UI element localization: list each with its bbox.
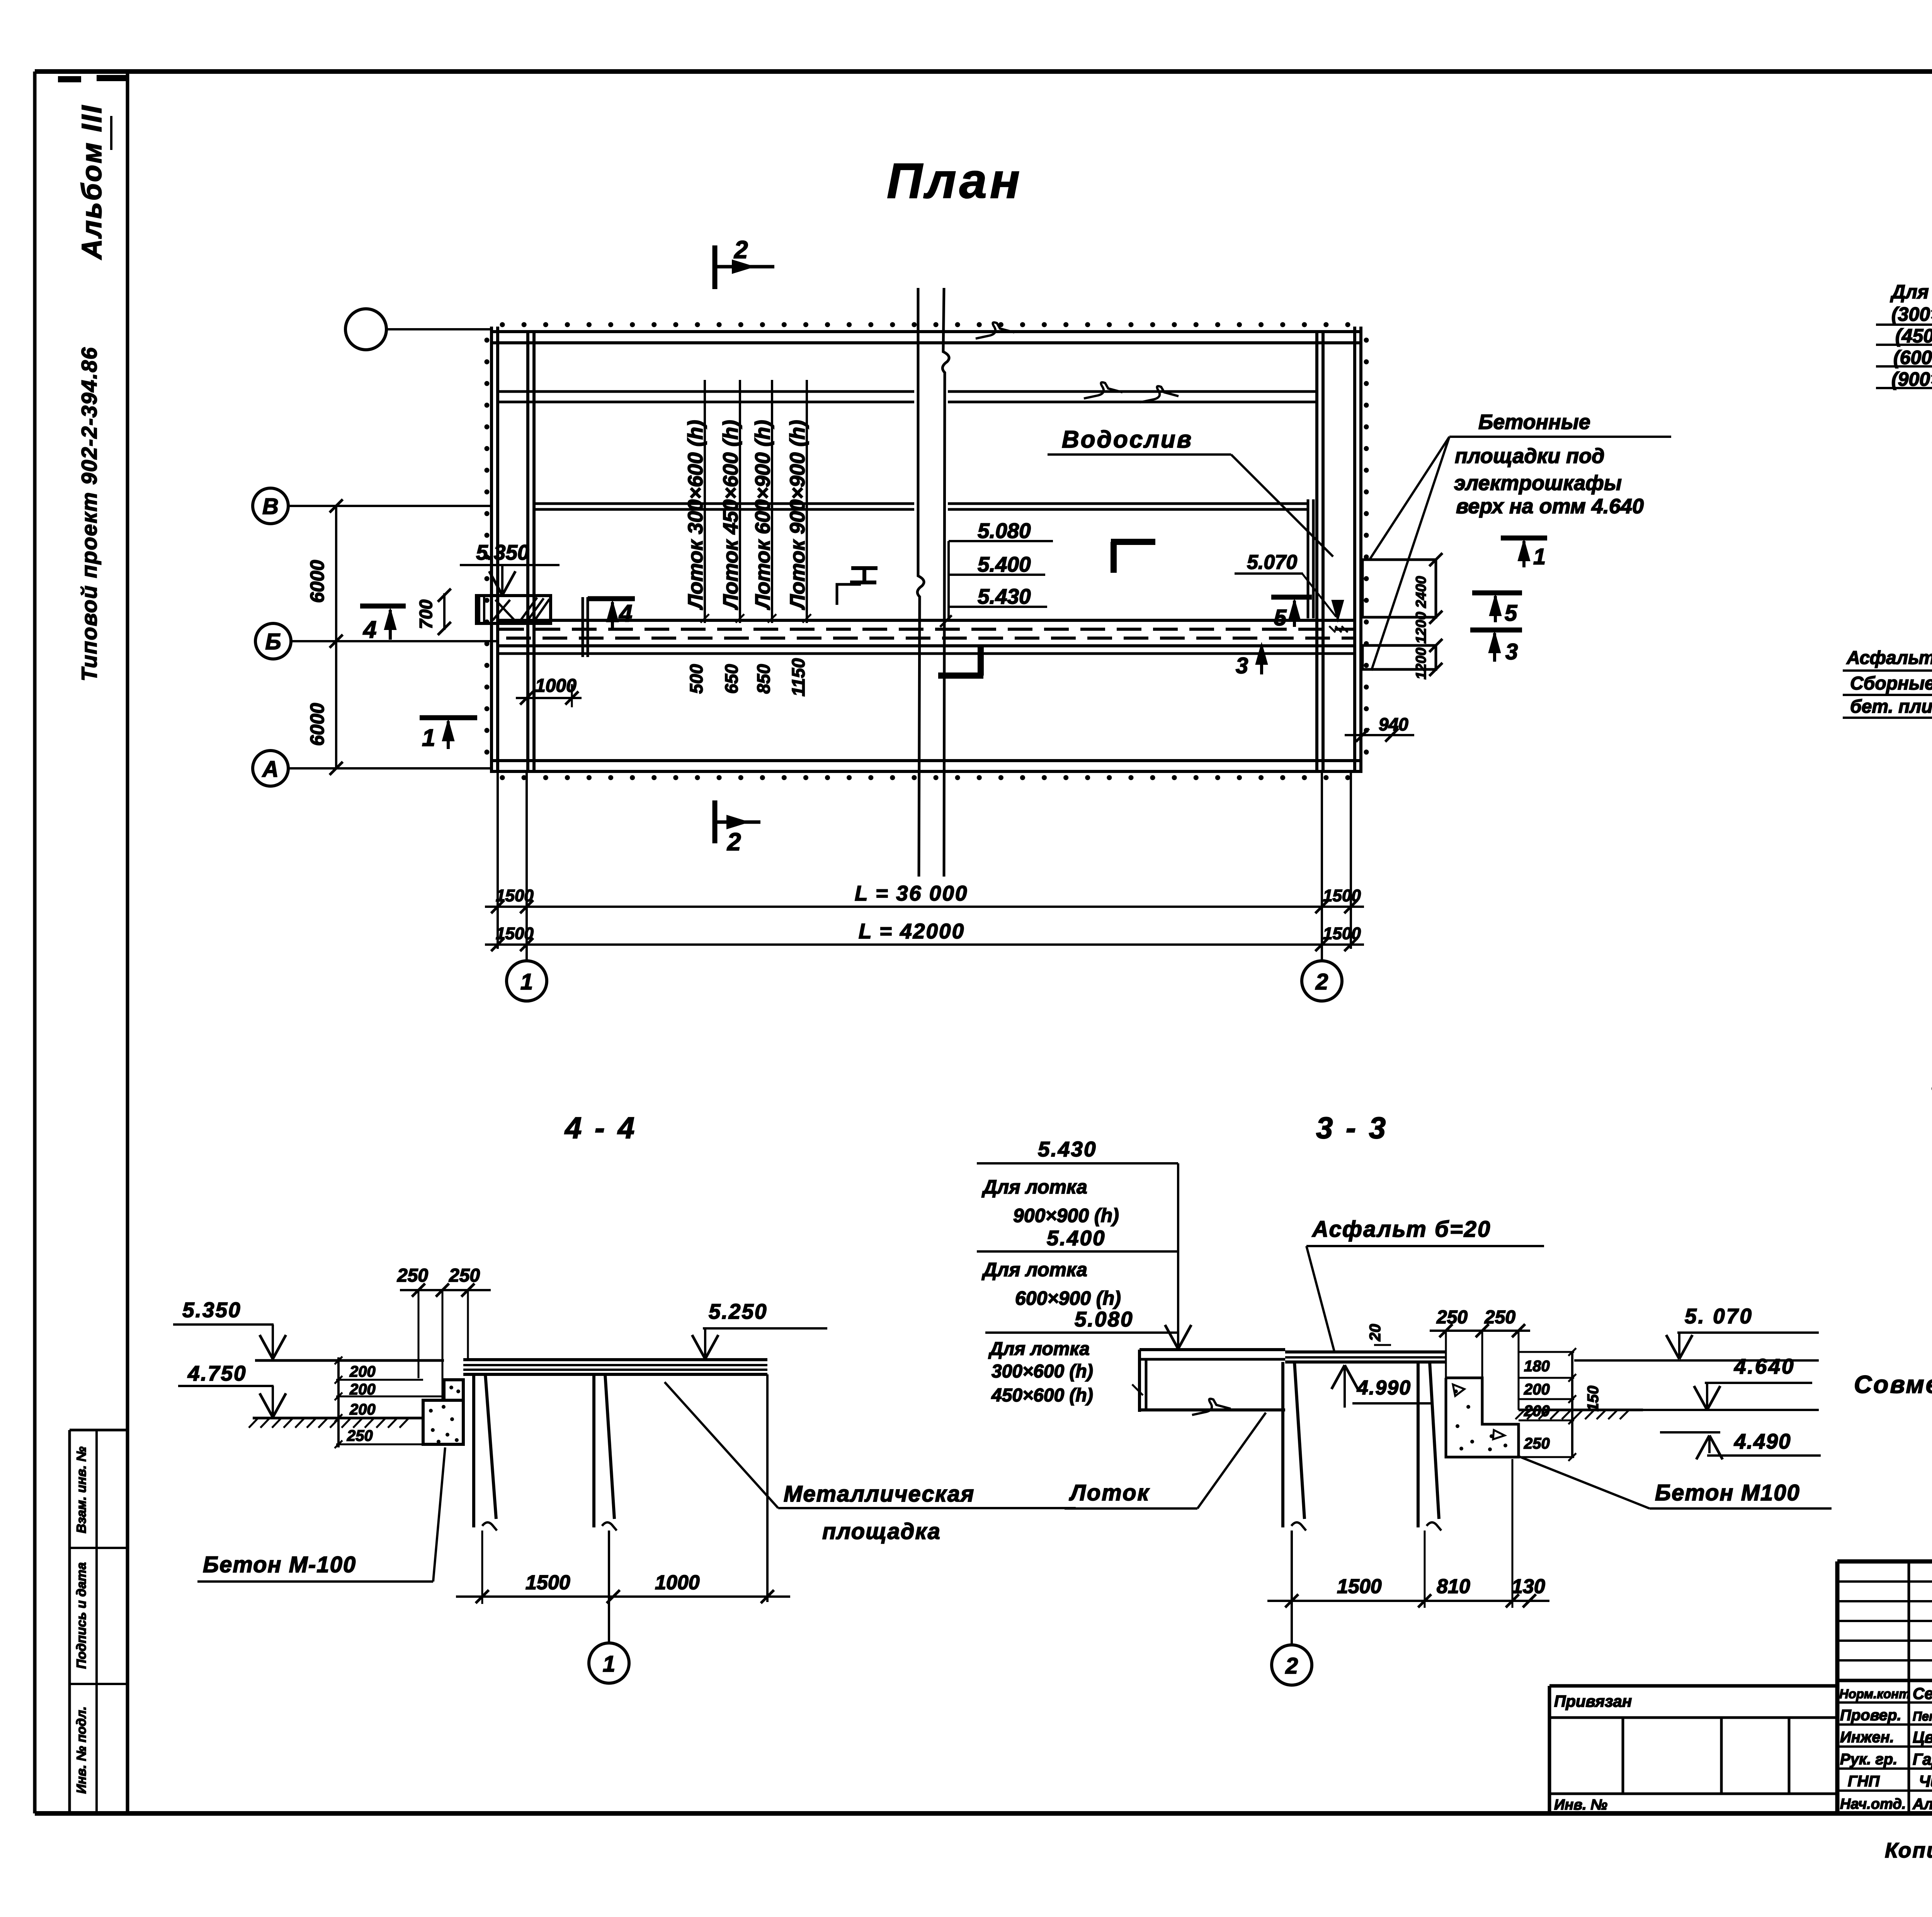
axis circle V: [253, 488, 288, 524]
leader from Beton M100 to pad (3-3): [1519, 1456, 1650, 1508]
axis dimension line 6000/6000: [335, 506, 337, 768]
svg-text:Копировал: Копировал: [1885, 1838, 1932, 1862]
svg-text:Нач.отд.: Нач.отд.: [1840, 1796, 1906, 1812]
elevation 4.490 (3-3): [1660, 1431, 1720, 1433]
axis circle 2 (3-3): [1272, 1645, 1312, 1685]
svg-text:Чирков: Чирков: [1919, 1772, 1932, 1790]
svg-text:Бетон М100: Бетон М100: [1655, 1480, 1800, 1505]
title block revision grid verticals: [1908, 1561, 1910, 1813]
svg-text:700: 700: [416, 599, 436, 629]
margin divider line: [126, 72, 129, 1813]
svg-text:4: 4: [618, 600, 632, 627]
svg-text:(300×600): (300×600): [1891, 303, 1932, 325]
dimension line 1500/1000 (4-4): [456, 1595, 790, 1598]
row axis line V: [288, 505, 492, 507]
svg-text:Лоток 900×900 (h): Лоток 900×900 (h): [786, 420, 809, 610]
tank bottom wall (double line): [492, 759, 1361, 762]
svg-text:1: 1: [422, 725, 435, 751]
central channel top line: [498, 619, 1355, 622]
extension lines (3-3): [1424, 1531, 1426, 1608]
svg-text:850: 850: [753, 664, 774, 694]
left wall (3-3): [1281, 1362, 1284, 1527]
note underline leader: [1449, 436, 1671, 438]
svg-text:1500: 1500: [496, 924, 534, 943]
break mark on upper interior line: [1084, 382, 1122, 398]
axis circle A: [253, 751, 288, 786]
svg-text:Водослив: Водослив: [1062, 426, 1193, 453]
left wall (4-4): [472, 1374, 475, 1527]
tank right wall stud dots: [1364, 340, 1369, 767]
section mark 1 (right): [1501, 536, 1547, 541]
svg-text:180: 180: [1524, 1358, 1550, 1375]
concrete pad (3-3): [1446, 1378, 1519, 1457]
svg-text:Лоток: Лоток: [1069, 1480, 1150, 1505]
axis circle B: [255, 623, 291, 659]
svg-text:А: А: [262, 757, 279, 782]
svg-text:2: 2: [734, 236, 748, 264]
svg-text:200: 200: [349, 1401, 376, 1418]
svg-text:500: 500: [686, 664, 706, 694]
svg-text:Совместно с данным см. л: Совместно с данным см. л. КЖ - 4: [1854, 1371, 1932, 1398]
central channel bottom line: [498, 644, 1355, 647]
svg-text:Металлическая: Металлическая: [784, 1481, 975, 1507]
tank inner-right wall (double line): [1315, 332, 1318, 771]
concrete pad lower (plan): [1362, 645, 1436, 669]
svg-text:3: 3: [1236, 653, 1248, 678]
pad layer dims 180/200/200/250 (3-3): [1519, 1351, 1574, 1353]
pad dimension ticks 2400 1200 1200: [1429, 553, 1442, 566]
detail area corner bracket lower: [938, 672, 983, 679]
section mark 2 (top): [713, 245, 718, 289]
svg-text:2: 2: [1285, 1653, 1298, 1679]
leader to upper pad: [1369, 437, 1449, 560]
svg-text:1200 1200 2400: 1200 1200 2400: [1413, 576, 1429, 679]
svg-text:150: 150: [1585, 1386, 1602, 1411]
leader from Lotok to trough (3-3): [1197, 1413, 1266, 1508]
svg-text:200: 200: [1524, 1381, 1550, 1398]
detail I cut mark in plan: [851, 566, 878, 570]
svg-text:250: 250: [449, 1265, 480, 1286]
svg-text:L = 42000: L = 42000: [859, 919, 965, 943]
svg-text:Типовой проект 902-2-394.86: Типовой проект 902-2-394.86: [77, 347, 101, 681]
svg-text:5: 5: [1274, 605, 1287, 630]
right wall (3-3): [1417, 1362, 1420, 1527]
tank left wall stud dots: [485, 340, 490, 767]
svg-text:5.400: 5.400: [978, 552, 1031, 576]
svg-text:Норм.конт: Норм.конт: [1839, 1687, 1910, 1701]
svg-text:площадка: площадка: [822, 1519, 941, 1544]
svg-text:200: 200: [349, 1363, 376, 1380]
svg-text:5.080: 5.080: [978, 519, 1031, 543]
svg-text:площадки под: площадки под: [1455, 444, 1604, 468]
ground level extension (3-3): [1643, 1409, 1819, 1411]
svg-text:Инв. №: Инв. №: [1554, 1797, 1607, 1813]
section mark 4 (right): [588, 596, 635, 601]
elevation 4.990 (3-3): [1344, 1365, 1346, 1408]
svg-text:940: 940: [1379, 714, 1408, 734]
privyazan box: [1549, 1684, 1837, 1688]
dimension 700 (rotated): [443, 593, 446, 630]
svg-text:20: 20: [1367, 1324, 1384, 1342]
svg-text:Для лотка: Для лотка: [1890, 281, 1932, 303]
svg-text:5.350: 5.350: [182, 1298, 241, 1322]
lotok bottom (3-3): [1139, 1408, 1285, 1411]
central channel lower wall line: [498, 652, 1355, 655]
svg-text:Б: Б: [265, 629, 281, 654]
wall edge extension (4-4): [481, 1531, 483, 1604]
concrete block lower (4-4): [423, 1400, 463, 1444]
svg-text:В: В: [262, 494, 279, 519]
svg-text:250: 250: [347, 1427, 373, 1444]
section mark 2 (bottom): [713, 800, 718, 843]
svg-text:Асфальт б=20: Асфальт б=20: [1311, 1217, 1491, 1242]
svg-text:Для лотка: Для лотка: [981, 1176, 1087, 1198]
svg-text:Семенова: Семенова: [1913, 1684, 1932, 1702]
svg-text:Гарбуз: Гарбуз: [1913, 1750, 1932, 1768]
section mark 4 (left): [360, 604, 406, 609]
svg-text:250: 250: [397, 1265, 428, 1286]
section mark 5 (right): [1472, 591, 1522, 596]
svg-text:300×600 (h): 300×600 (h): [992, 1361, 1093, 1382]
section mark 3 (plan interior): [1260, 645, 1263, 674]
svg-text:План: План: [887, 153, 1023, 209]
svg-text:Инжен.: Инжен.: [1840, 1729, 1894, 1746]
title block signature rows: [1837, 1701, 1932, 1704]
svg-text:Провер.: Провер.: [1840, 1707, 1901, 1724]
leader to platform (4-4): [665, 1382, 778, 1508]
tank bottom wall stud dots: [502, 775, 1356, 780]
plan dimension line L=36000: [485, 906, 1364, 908]
scan smudge top-left: [58, 76, 81, 82]
axis line to circle 1 (4-4): [608, 1531, 610, 1643]
table right edge with arrow (3-3): [1177, 1163, 1179, 1333]
svg-text:Альтшулле: Альтшулле: [1912, 1796, 1932, 1813]
svg-text:5.350: 5.350: [476, 540, 529, 564]
sheet border bottom: [35, 1811, 1932, 1816]
break mark on top wall: [976, 322, 1014, 339]
section mark 5 (plan interior): [1271, 595, 1312, 600]
tank left outer wall (double line): [490, 327, 493, 773]
svg-text:1000: 1000: [655, 1571, 700, 1594]
svg-text:4.640: 4.640: [1734, 1354, 1795, 1378]
svg-text:бет. плиты: бет. плиты: [1850, 696, 1932, 717]
margin stamp table: [68, 1430, 71, 1813]
svg-text:L = 36 000: L = 36 000: [855, 881, 968, 905]
svg-text:5.080: 5.080: [1075, 1307, 1134, 1331]
vertical break line pair through tank: [917, 288, 924, 877]
lotok left wall (3-3): [1138, 1350, 1141, 1412]
svg-text:600×900 (h): 600×900 (h): [1015, 1287, 1121, 1309]
svg-text:(900×900): (900×900): [1891, 368, 1932, 390]
svg-text:5.430: 5.430: [1038, 1137, 1097, 1161]
inlet wall stub below platform: [582, 597, 584, 657]
svg-text:Асфальт-б=20: Асфальт-б=20: [1846, 648, 1932, 668]
concrete pad upper (plan): [1362, 560, 1436, 617]
svg-text:1000: 1000: [535, 676, 577, 696]
svg-text:(600×900): (600×900): [1893, 347, 1932, 368]
svg-text:Цветкова: Цветкова: [1913, 1728, 1932, 1746]
svg-text:6000: 6000: [306, 560, 328, 603]
svg-text:450×600 (h): 450×600 (h): [991, 1385, 1093, 1406]
central channel dashed water lines: [499, 628, 1353, 631]
title block outer frame: [1835, 1561, 1840, 1813]
svg-text:5.070: 5.070: [1247, 551, 1297, 574]
svg-text:Инв. № подл.: Инв. № подл.: [74, 1706, 89, 1794]
leader to lower pad: [1371, 437, 1449, 671]
svg-text:900×900 (h): 900×900 (h): [1013, 1205, 1119, 1226]
svg-text:Лоток 600×900 (h): Лоток 600×900 (h): [751, 420, 774, 610]
svg-text:Взам. инв. №: Взам. инв. №: [74, 1447, 89, 1534]
leader to deck (3-3): [1306, 1246, 1334, 1351]
sheet border left: [33, 72, 37, 1813]
interior wall line upper (double): [498, 390, 914, 393]
svg-text:5.250: 5.250: [709, 1299, 768, 1323]
svg-text:3: 3: [1505, 639, 1518, 664]
svg-text:5: 5: [1505, 601, 1517, 626]
svg-text:1: 1: [1533, 544, 1546, 569]
svg-text:Бетонные: Бетонные: [1478, 410, 1590, 434]
platform right edge line (4-4): [766, 1374, 769, 1602]
ground line (3-3): [1519, 1409, 1643, 1411]
svg-text:верх на отм 4.640: верх на отм 4.640: [1456, 495, 1644, 518]
svg-text:3 - 3: 3 - 3: [1316, 1111, 1388, 1145]
svg-text:4.490: 4.490: [1734, 1429, 1791, 1453]
svg-text:1500: 1500: [526, 1571, 570, 1594]
svg-text:ГНП: ГНП: [1848, 1773, 1880, 1790]
svg-text:250: 250: [1524, 1435, 1550, 1452]
plan dimension line L=42000: [485, 943, 1364, 946]
lotok top slab (3-3): [1139, 1348, 1285, 1351]
svg-text:4.750: 4.750: [187, 1361, 247, 1385]
svg-text:5.400: 5.400: [1047, 1226, 1106, 1250]
svg-text:(450×600): (450×600): [1895, 325, 1932, 347]
axis line to circle 2 (3-3): [1291, 1531, 1293, 1645]
axis circle top-left (unlabeled): [345, 309, 386, 350]
svg-text:1: 1: [520, 969, 533, 994]
lotok leader lines: [704, 380, 706, 623]
svg-text:Лоток 450×600 (h): Лоток 450×600 (h): [719, 420, 742, 610]
svg-text:Сборные жел.: Сборные жел.: [1850, 673, 1932, 694]
tank top wall stud dots: [502, 322, 1356, 327]
axis leader to tank top wall: [386, 328, 492, 330]
svg-text:4.990: 4.990: [1357, 1377, 1411, 1399]
concrete block upper step (4-4): [444, 1380, 463, 1400]
row axis line A: [288, 767, 492, 770]
svg-text:130: 130: [1512, 1575, 1545, 1598]
svg-text:1500: 1500: [1337, 1575, 1382, 1598]
middle wall (4-4): [592, 1374, 595, 1527]
svg-text:Привязан: Привязан: [1554, 1692, 1632, 1710]
svg-text:Петропавловска: Петропавловска: [1913, 1709, 1932, 1723]
svg-text:5. 070: 5. 070: [1685, 1304, 1753, 1328]
svg-text:1500: 1500: [1323, 924, 1361, 943]
svg-text:4: 4: [362, 616, 376, 643]
sheet border top: [35, 69, 1932, 74]
svg-text:1150: 1150: [788, 658, 808, 696]
deck level line (3-3): [1574, 1359, 1819, 1362]
svg-text:1500: 1500: [496, 886, 534, 905]
layer dimension lines 200/200/200/250 (4-4): [337, 1357, 340, 1447]
axis circle 2 (plan): [1302, 961, 1342, 1001]
svg-text:6000: 6000: [306, 703, 328, 746]
tank top wall (double line): [492, 330, 1361, 333]
svg-text:1500: 1500: [1323, 886, 1361, 905]
axis circle 1 (4-4): [589, 1643, 629, 1683]
section mark 1 (left): [420, 715, 477, 720]
svg-text:Для лотка: Для лотка: [981, 1259, 1087, 1280]
svg-text:Рук. гр.: Рук. гр.: [1840, 1751, 1897, 1768]
svg-text:5.430: 5.430: [978, 584, 1031, 608]
svg-text:200: 200: [349, 1381, 376, 1398]
svg-text:Для лотка: Для лотка: [988, 1339, 1090, 1359]
svg-text:2: 2: [1315, 969, 1328, 994]
svg-text:810: 810: [1437, 1575, 1470, 1598]
svg-text:Лоток 300×600 (h): Лоток 300×600 (h): [684, 420, 707, 610]
svg-text:электрошкафы: электрошкафы: [1454, 472, 1622, 495]
tank right outer wall (double line): [1353, 327, 1356, 773]
weir box at inner-right wall: [1307, 499, 1310, 618]
svg-text:4 - 4: 4 - 4: [564, 1111, 637, 1145]
ground line (4-4): [253, 1417, 423, 1420]
title block revision grid horizontals: [1837, 1580, 1932, 1583]
tank inner-left wall (double line): [526, 332, 529, 771]
detail area corner bracket upper: [1111, 539, 1155, 545]
svg-text:Подпись и дата: Подпись и дата: [74, 1562, 89, 1669]
svg-text:Бетон М-100: Бетон М-100: [203, 1552, 356, 1577]
svg-text:650: 650: [721, 664, 742, 694]
leader to concrete block (4-4): [433, 1447, 445, 1582]
section mark 3 (right): [1470, 628, 1522, 633]
svg-text:Альбом III: Альбом III: [77, 104, 107, 260]
ledge top level line (4-4): [255, 1359, 444, 1362]
dimension line 1500/810/130 (3-3): [1267, 1600, 1549, 1602]
asphalt deck (3-3): [1285, 1350, 1446, 1353]
axis circle 1 (plan): [507, 961, 547, 1001]
svg-text:1: 1: [603, 1651, 615, 1677]
interior wall line middle (double): [534, 502, 914, 505]
row axis line B: [291, 640, 498, 642]
metal platform deck (4-4): [463, 1358, 767, 1361]
platform hatched box in plan: [476, 596, 551, 623]
svg-text:2: 2: [727, 828, 741, 856]
extension lines to axis circles: [497, 773, 499, 949]
